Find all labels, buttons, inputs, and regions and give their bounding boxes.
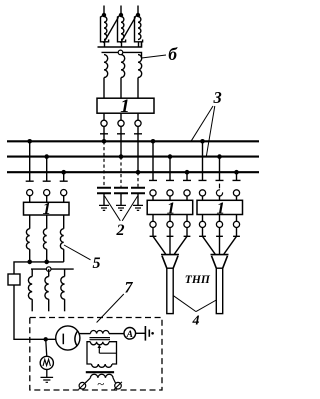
wire T3 right lead down bbox=[109, 342, 117, 364]
wire feeder F2 tap 3 with disconnector contact bbox=[233, 172, 241, 200]
svg-text:4: 4 bbox=[192, 314, 200, 329]
node junction dot feeder F1 phase 3 on bus 3 bbox=[185, 170, 190, 175]
node junction dot phase 1 on bus 1 bbox=[102, 139, 107, 144]
wire feeder F2 below-box contact 2 bbox=[216, 215, 223, 255]
transformer T2 secondary winding 1 bbox=[28, 269, 32, 311]
label leader line to 6 bbox=[142, 55, 167, 58]
svg-text:ТНП: ТНП bbox=[185, 273, 211, 286]
meter A ammeter bbox=[124, 328, 136, 341]
electron tube device U3 (circle with plate and cathode) bbox=[56, 326, 80, 350]
capacitor C3 network phase-to-ground capacitance bbox=[131, 188, 145, 206]
breaker box U1 of transformer feeder bbox=[97, 98, 154, 113]
transformer T1 primary delta connection diagonal 2 bbox=[121, 17, 136, 43]
transformer T1 primary delta connection diagonal 1 bbox=[104, 17, 119, 43]
ground symbol below capacitor C3 bbox=[133, 205, 143, 210]
wire primary star point connector of T2 bbox=[14, 262, 64, 274]
wire from resistor R1 down to control device bbox=[14, 285, 56, 339]
bus 2 busbar bbox=[7, 156, 259, 158]
wire left tap 3 with disconnector contact bbox=[60, 172, 68, 202]
label leader lines from 3 to buses bbox=[191, 106, 215, 157]
terminal clamp left on box border bbox=[79, 382, 87, 390]
transformer T1 core yoke bbox=[98, 43, 142, 48]
wire feeder F1 tap 2 with disconnector contact bbox=[166, 157, 174, 201]
node junction dot at control box input bbox=[44, 337, 48, 341]
output terminal bars symbol bbox=[145, 326, 154, 341]
bus 3 busbar bbox=[7, 171, 259, 173]
transformer T3 matching transformer top winding bbox=[90, 331, 109, 334]
wire dashed network capacitance lead phase 1 bbox=[103, 141, 105, 187]
node junction dot feeder F2 phase 1 on bus 1 bbox=[200, 139, 205, 144]
breaker box U2 of arc-suppression branch bbox=[24, 202, 70, 215]
svg-text:5: 5 bbox=[93, 255, 101, 272]
node junction dot feeder F2 phase 3 on bus 3 bbox=[234, 170, 239, 175]
svg-text:7: 7 bbox=[125, 280, 134, 297]
transformer T3 bottom winding bbox=[90, 342, 109, 345]
wire T3 left lead down bbox=[87, 342, 92, 364]
capacitor C1 network phase-to-ground capacitance bbox=[97, 188, 111, 206]
node junction dot left tap 2 on bus 2 bbox=[44, 154, 49, 159]
disconnector contact phase 3 below box U1 bbox=[134, 113, 142, 172]
cable F2 through zero-sequence CT bbox=[216, 268, 222, 313]
svg-text:1: 1 bbox=[120, 96, 130, 117]
label leader line to 5 bbox=[64, 245, 91, 260]
capacitor C2 network phase-to-ground capacitance bbox=[114, 188, 128, 206]
transformer T2 primary winding 1 (arc suppression coil 5) bbox=[26, 215, 29, 262]
bus 1 busbar bbox=[7, 140, 259, 142]
svg-text:А: А bbox=[126, 330, 133, 340]
disconnector contact phase 1 below box U1 bbox=[100, 113, 108, 141]
cable F1 through zero-sequence CT bbox=[167, 268, 173, 313]
svg-text:б: б bbox=[168, 44, 178, 64]
transformer T2 secondary winding 3 bbox=[61, 269, 65, 311]
node junction dot phase 3 on bus 3 bbox=[136, 170, 141, 175]
ground symbol below capacitor C1 bbox=[99, 205, 109, 210]
node junction dot left tap 1 on bus 1 bbox=[27, 139, 32, 144]
disconnector contact phase 2 below box U1 bbox=[117, 113, 125, 156]
transformer T1 primary winding phase 3 bbox=[135, 15, 143, 47]
node junction dot T2 connector middle bbox=[44, 260, 49, 265]
node junction dot T2 connector left bbox=[27, 260, 32, 265]
ground symbol below capacitor C2 bbox=[116, 205, 126, 210]
ground symbol below meter bbox=[41, 370, 54, 383]
label leader V lines from 2 to capacitors bbox=[105, 196, 138, 221]
cable termination funnel of feeder F1 bbox=[161, 255, 179, 269]
wire feeder F2 tap 1 with disconnector contact bbox=[199, 141, 207, 200]
breaker box of feeder F2 bbox=[197, 200, 243, 214]
node neutral circle on T2 secondary bus bbox=[46, 267, 51, 272]
meter kV vibration galvanometer bbox=[40, 339, 53, 369]
wire left tap 1 with disconnector contact bbox=[26, 141, 34, 202]
node junction dot feeder F1 phase 2 on bus 2 bbox=[168, 154, 173, 159]
wire feeder F2 below-box contact 1 bbox=[199, 215, 215, 255]
breaker box of feeder F1 bbox=[147, 200, 193, 214]
wire ammeter to output terminal bbox=[136, 332, 146, 334]
terminal clamp right on box border bbox=[114, 382, 122, 390]
node neutral point circle bbox=[118, 50, 123, 55]
wire feeder F1 below-box contact 2 bbox=[167, 215, 174, 255]
transformer T2 secondary winding 2 bbox=[45, 269, 49, 311]
node junction dot feeder F2 phase 2 on bus 2 bbox=[217, 154, 222, 159]
node junction dot phase 2 on bus 2 bbox=[119, 154, 124, 159]
node phase junction dots transformer T1 primary bbox=[102, 13, 140, 17]
svg-text:1: 1 bbox=[167, 198, 176, 217]
node junction dot left tap 3 on bus 3 bbox=[61, 170, 66, 175]
cable termination funnel of feeder F2 bbox=[211, 255, 229, 269]
svg-text:3: 3 bbox=[213, 88, 222, 107]
svg-text:~: ~ bbox=[97, 376, 104, 391]
wire left tap 2 with disconnector contact bbox=[43, 157, 51, 203]
wire input to electron tube device bbox=[56, 338, 63, 340]
wire T3 to ammeter bbox=[109, 333, 124, 335]
wire feeder F1 below-box contact 3 bbox=[174, 215, 190, 255]
transformer T4 supply winding with AC source bbox=[85, 374, 116, 391]
wire dashed network capacitance lead phase 3 bbox=[137, 172, 139, 187]
dashed enclosure of automatic tuning device 7 bbox=[30, 318, 162, 391]
transformer T1 secondary winding phase 2 bbox=[121, 55, 125, 99]
label leader V lines from 4 to cables bbox=[173, 296, 216, 312]
svg-text:1: 1 bbox=[43, 199, 52, 218]
transformer T1 secondary winding phase 1 bbox=[104, 55, 108, 99]
transformer T4 regulating transformer top winding bbox=[92, 364, 112, 367]
transformer T1 primary winding phase 2 bbox=[118, 15, 126, 47]
wire feeder F1 tap 1 with disconnector contact bbox=[149, 141, 157, 200]
wire feeder F1 below-box contact 1 bbox=[150, 215, 166, 255]
transformer T4 core bbox=[86, 371, 114, 373]
transformer T1 primary winding phase 1 bbox=[101, 15, 109, 47]
wire dashed network capacitance lead phase 2 bbox=[120, 157, 122, 187]
resistor R1 in grounding lead bbox=[8, 274, 20, 285]
label leader line from 7 to dashed box bbox=[97, 294, 124, 323]
wire feeder F2 tap 2 with disconnector contact bbox=[216, 157, 224, 201]
transformer T2 secondary top bus bbox=[31, 268, 74, 270]
svg-text:2: 2 bbox=[116, 222, 125, 239]
regulation arrow on transformer T4 bbox=[98, 345, 117, 354]
wire feeder F1 tap 3 with disconnector contact bbox=[183, 172, 191, 200]
transformer T2 primary winding 3 (arc suppression coil 5) bbox=[60, 215, 63, 262]
transformer T2 primary winding 2 (arc suppression coil 5) bbox=[43, 215, 46, 262]
wire feeder F2 below-box contact 3 bbox=[224, 215, 240, 255]
transformer T3 core bbox=[90, 338, 111, 340]
transformer T1 secondary winding phase 3 bbox=[138, 55, 142, 99]
svg-text:1: 1 bbox=[217, 198, 226, 217]
wire tube to matching transformer bbox=[80, 333, 91, 335]
node junction dot feeder F1 phase 1 on bus 1 bbox=[151, 139, 156, 144]
transformer T1 secondary top bus with neutral tap bbox=[102, 52, 142, 58]
wire incoming supply leads bbox=[104, 6, 138, 16]
